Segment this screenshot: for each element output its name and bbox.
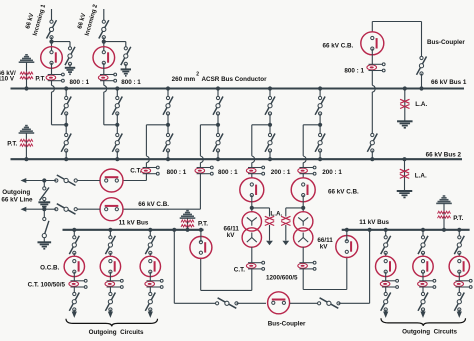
isolator 11 kV bus-coupler left xyxy=(216,298,239,309)
node incoming 1 on bus 2 xyxy=(64,157,68,161)
current transformer outgoing line 1 xyxy=(141,166,159,175)
svg-text:66 kV C.B.: 66 kV C.B. xyxy=(138,201,169,208)
svg-text:1200/600/5: 1200/600/5 xyxy=(266,274,298,281)
ground L.A. bus 1 xyxy=(397,121,413,127)
crossover incoming 1 over Bus 1 xyxy=(52,85,55,92)
ground L.A. transformer 1 xyxy=(266,241,273,246)
label Bus-Coupler xyxy=(268,321,306,328)
current transformer outgoing circuit R1 xyxy=(380,279,398,288)
svg-text:L.A.: L.A. xyxy=(270,210,282,217)
potential transformer P.T. 66kV/110V xyxy=(19,55,35,89)
ground outgoing line 1 xyxy=(38,200,50,208)
wire xyxy=(104,92,118,125)
bus 1 isolator transformer 1 xyxy=(265,89,275,125)
wire xyxy=(109,272,111,281)
label Outgoing Circuits xyxy=(402,328,457,335)
label Outgoing Circuits xyxy=(89,329,144,336)
wire to earth switch 1 xyxy=(52,42,71,49)
label C.T. 100/50/5 xyxy=(28,281,66,288)
node outgoing line 1 on bus 1 xyxy=(166,86,170,90)
isolator incoming 2 xyxy=(99,20,109,39)
node L.A. tap transformer 2 xyxy=(301,206,305,210)
svg-text:2: 2 xyxy=(196,72,199,78)
11 kV Bus left xyxy=(63,229,204,231)
node P.T. on bus 2 xyxy=(24,157,28,161)
wire xyxy=(422,287,424,295)
wire xyxy=(103,63,105,75)
arrow outgoing circuit R1 xyxy=(383,312,388,318)
wire xyxy=(458,287,460,295)
node outgoing line 1 transfer xyxy=(166,123,170,127)
node transformer 2 on bus 2 xyxy=(318,157,322,161)
node outgoing line 1 on bus 2 xyxy=(166,157,170,161)
label L.A. xyxy=(270,210,282,217)
node earth switch outgoing 2 xyxy=(42,207,46,211)
current transformer outgoing circuit L3 xyxy=(145,279,163,288)
incoming 1 line drop xyxy=(51,9,53,22)
node P.T. on 11 kV bus right xyxy=(442,228,446,232)
current transformer T1 secondary xyxy=(246,261,264,270)
current transformer outgoing circuit L1 xyxy=(69,279,87,288)
arrow outgoing line 1 xyxy=(21,178,27,183)
bus 2 isolator incoming 1 xyxy=(61,125,71,159)
current transformer bus-coupler xyxy=(367,63,385,72)
oil circuit breaker outgoing circuit R2 O.C.B. xyxy=(413,256,433,276)
node transformer 2 on bus 1 xyxy=(318,86,322,90)
node bus-coupler on 11 kV bus left xyxy=(172,228,176,232)
wire outgoing line 2 from transfer node xyxy=(200,125,218,156)
svg-text:11 kV Bus: 11 kV Bus xyxy=(359,219,389,226)
wire xyxy=(371,70,373,85)
ground earth switch 2 xyxy=(121,64,131,76)
node transformer 1 on bus 1 xyxy=(268,86,272,90)
wire xyxy=(346,230,348,241)
circuit breaker 11 kV incomer right xyxy=(336,236,358,258)
bus 1 isolator outgoing line 1 xyxy=(163,89,173,125)
wire xyxy=(269,225,271,241)
crossover over Bus 2 xyxy=(252,156,255,163)
crossover bus-coupler over Bus 1 xyxy=(372,85,375,92)
svg-text:C.T.: C.T. xyxy=(234,266,245,273)
node incoming 1 xyxy=(49,40,53,44)
circuit breaker outgoing line 2 xyxy=(100,198,123,221)
svg-text:ACSR Bus Conductor: ACSR Bus Conductor xyxy=(202,76,268,83)
svg-text:260 mm: 260 mm xyxy=(172,76,196,83)
wire xyxy=(109,287,111,295)
brace outgoing circuits left xyxy=(66,319,158,327)
svg-text:P.T.: P.T. xyxy=(35,76,45,83)
svg-text:P.T.: P.T. xyxy=(198,221,208,228)
wire xyxy=(73,272,75,281)
svg-text:L.A.: L.A. xyxy=(415,101,427,108)
arrow outgoing circuit R3 xyxy=(457,312,462,318)
potential transformer P.T. 11 kV left xyxy=(180,211,196,230)
label 800 : 1 xyxy=(167,169,187,176)
label C.T. xyxy=(234,266,245,273)
bus 2 isolator transformer 2 xyxy=(315,125,325,159)
wire xyxy=(422,272,424,281)
wire xyxy=(200,230,202,242)
node outgoing circuit R3 on 11 kV bus xyxy=(457,228,461,232)
svg-text:Bus-Coupler: Bus-Coupler xyxy=(427,39,465,46)
node outgoing line 2 on bus 2 xyxy=(216,157,220,161)
svg-text:kV: kV xyxy=(227,232,236,239)
isolator 11 kV bus-coupler right xyxy=(318,298,341,309)
wire xyxy=(385,287,387,295)
label P.T. xyxy=(198,221,208,228)
wire xyxy=(339,230,370,303)
isolator outgoing circuit L2 lower xyxy=(105,292,115,312)
label Bus-Coupler xyxy=(427,39,465,46)
wire transformer 1 from transfer node xyxy=(252,125,270,156)
svg-text:Outgoing Circuits: Outgoing Circuits xyxy=(89,329,144,336)
arrow outgoing line 2 xyxy=(21,207,27,212)
wire xyxy=(149,287,151,295)
potential transformer P.T. 11 kV right xyxy=(436,196,452,230)
bus 1 isolator transformer 2 xyxy=(315,89,325,125)
wire xyxy=(251,195,253,212)
svg-text:11 kV Bus: 11 kV Bus xyxy=(119,219,149,226)
current transformer transformer-1 feeder xyxy=(246,166,264,175)
node P.T. on 11 kV bus left xyxy=(185,228,189,232)
wire xyxy=(26,180,57,182)
svg-text:66 kV C.B.: 66 kV C.B. xyxy=(328,188,359,195)
label 66/11 kV xyxy=(317,237,333,251)
current transformer outgoing line 2 xyxy=(195,166,213,175)
node incoming 2 transfer xyxy=(115,123,119,127)
wire outgoing line 1 from transfer node xyxy=(146,125,168,156)
wire xyxy=(103,80,105,85)
wire xyxy=(51,80,53,85)
wire to earth switch 2 xyxy=(104,42,126,49)
node bus-coupler on bus 1 xyxy=(419,86,423,90)
isolator outgoing circuit R3 upper xyxy=(454,230,464,256)
oil circuit breaker outgoing circuit L3 O.C.B. xyxy=(140,256,160,276)
label 11 kV Bus xyxy=(119,219,149,226)
current transformer outgoing circuit L2 xyxy=(105,279,123,288)
bus-coupler isolator to bus 1 xyxy=(417,56,427,88)
arrow outgoing circuit R2 xyxy=(420,312,425,318)
wire xyxy=(73,287,75,295)
isolator outgoing circuit L2 upper xyxy=(105,230,115,256)
bus 2 isolator outgoing line 1 xyxy=(163,125,173,159)
circuit breaker 11 kV incomer left xyxy=(190,236,212,258)
node transformer 2 transfer xyxy=(318,123,322,127)
wire xyxy=(51,63,53,75)
ground outgoing line 2 xyxy=(37,238,51,249)
svg-text:Outgoing: Outgoing xyxy=(2,189,30,196)
wire xyxy=(302,163,304,168)
label 800 : 1 xyxy=(121,79,141,86)
node outgoing circuit R2 on 11 kV bus xyxy=(421,228,425,232)
wire xyxy=(290,302,319,304)
wire xyxy=(52,92,67,125)
wire xyxy=(458,272,460,281)
svg-text:C.T.: C.T. xyxy=(130,168,141,175)
oil circuit breaker outgoing circuit R3 O.C.B. xyxy=(449,256,469,276)
isolator outgoing circuit R3 lower xyxy=(454,292,464,312)
current transformer incoming 1 xyxy=(46,73,64,82)
svg-text:O.C.B.: O.C.B. xyxy=(40,265,59,272)
node incomer on 11 kV bus right xyxy=(345,228,349,232)
incoming 2 line drop xyxy=(103,9,105,22)
node outgoing circuit L2 on 11 kV bus xyxy=(108,228,112,232)
wire xyxy=(123,173,146,180)
wire xyxy=(251,163,253,168)
node L.A. on bus 2 xyxy=(402,157,406,161)
label 66 kV Bus 1 xyxy=(431,79,467,86)
isolator outgoing line 2 xyxy=(55,204,78,215)
svg-text:800 : 1: 800 : 1 xyxy=(344,67,364,74)
svg-text:200 : 1: 200 : 1 xyxy=(322,169,342,176)
bus 1 isolator incoming 2 xyxy=(112,89,122,125)
node P.T. on bus 1 xyxy=(24,86,28,90)
brace outgoing circuits right xyxy=(381,318,466,326)
node bus-coupler on bus 2 xyxy=(370,157,374,161)
label 66 kV Incoming 2 xyxy=(76,3,99,36)
node outgoing line 2 on bus 1 xyxy=(216,86,220,90)
svg-text:200 : 1: 200 : 1 xyxy=(271,169,291,176)
earth switch outgoing line 2 xyxy=(42,209,49,238)
node incoming 2 on bus 2 xyxy=(115,157,119,161)
arrow outgoing circuit L3 xyxy=(148,312,153,318)
current transformer outgoing circuit R2 xyxy=(418,279,436,288)
label 66 kV/ 110 V xyxy=(0,70,16,83)
node outgoing line 2 transfer xyxy=(216,123,220,127)
bus-coupler circuit breaker 66 kV C.B. xyxy=(361,32,384,55)
wire L.A. tap xyxy=(286,208,303,217)
label 200 : 1 xyxy=(322,169,342,176)
lightning arrester transformer 2 xyxy=(281,216,290,225)
label Outgoing 66 kV Line xyxy=(1,189,33,203)
isolator outgoing circuit R1 upper xyxy=(381,230,391,256)
isolator outgoing circuit L3 lower xyxy=(145,292,155,312)
node outgoing circuit L3 on 11 kV bus xyxy=(148,228,152,232)
bus 2 isolator outgoing line 2 xyxy=(213,125,223,159)
earth switch incoming 2 xyxy=(121,47,131,66)
bus 1 isolator outgoing line 2 xyxy=(213,89,223,125)
svg-text:66 kV Bus 1: 66 kV Bus 1 xyxy=(431,79,467,86)
circuit breaker transformer 1 66 kV C.B. xyxy=(240,178,264,202)
node outgoing circuit R1 on 11 kV bus xyxy=(384,228,388,232)
svg-text:66 kV Bus 2: 66 kV Bus 2 xyxy=(426,152,462,159)
label 66 kV C.B. xyxy=(138,201,169,208)
wire xyxy=(302,247,304,263)
arrow outgoing circuit L1 xyxy=(72,312,77,318)
wire xyxy=(76,180,101,182)
bus-coupler top tie xyxy=(372,22,421,59)
crossover over Bus 2 xyxy=(200,156,203,163)
wire xyxy=(302,195,304,212)
node incoming 1 on bus 1 xyxy=(64,86,68,90)
label 200 : 1 xyxy=(271,169,291,176)
svg-text:800 : 1: 800 : 1 xyxy=(218,169,238,176)
svg-text:kV: kV xyxy=(320,244,329,251)
wire xyxy=(123,173,200,209)
svg-text:66 kV Line: 66 kV Line xyxy=(1,196,33,203)
wire xyxy=(251,247,253,263)
node outgoing circuit L1 on 11 kV bus xyxy=(72,228,76,232)
svg-text:Bus-Coupler: Bus-Coupler xyxy=(268,321,306,328)
label P.T. xyxy=(453,215,463,222)
crossover over Bus 2 xyxy=(146,156,149,163)
lightning arrester L.A. bus 1 xyxy=(400,89,409,122)
wire xyxy=(26,208,57,210)
wire xyxy=(149,272,151,281)
label 66 kV Incoming 1 xyxy=(24,3,47,36)
svg-text:P.T.: P.T. xyxy=(7,141,17,148)
label L.A. xyxy=(415,101,427,108)
11 kV Bus right xyxy=(342,229,470,231)
label 1200/600/5 xyxy=(266,274,298,281)
bus 1 isolator incoming 1 xyxy=(61,89,71,125)
circuit breaker incoming 2 (66 kV C.B.) xyxy=(93,47,115,69)
wire xyxy=(51,37,53,52)
label P.T. xyxy=(7,141,17,148)
potential transformer P.T. bus 2 xyxy=(19,126,35,160)
oil circuit breaker outgoing circuit R1 O.C.B. xyxy=(376,256,396,276)
isolator outgoing line 1 xyxy=(55,175,78,186)
svg-text:C.T. 100/50/5: C.T. 100/50/5 xyxy=(28,281,66,288)
ground L.A. bus 2 xyxy=(397,191,413,197)
label 66/11 kV xyxy=(224,226,240,240)
wire L.A. tap xyxy=(252,208,270,217)
label 66 kV Bus 2 xyxy=(426,152,462,159)
isolator outgoing circuit R1 lower xyxy=(381,292,391,312)
crossover over Bus 2 xyxy=(303,156,306,163)
transformer T2 66/11 kV xyxy=(294,212,313,248)
label P.T. xyxy=(35,76,45,83)
isolator outgoing circuit L3 upper xyxy=(145,230,155,256)
node earth switch outgoing 1 xyxy=(42,178,46,182)
isolator incoming 1 xyxy=(47,20,57,39)
node transformer 1 transfer xyxy=(268,123,272,127)
node incomer on 11 kV bus left xyxy=(199,228,203,232)
label 66 kV C.B. xyxy=(323,42,354,49)
crossover incoming 2 over Bus 1 xyxy=(104,85,107,92)
wire xyxy=(303,257,347,290)
svg-text:800 : 1: 800 : 1 xyxy=(167,169,187,176)
lightning arrester transformer 1 xyxy=(265,216,274,225)
svg-text:66 kV C.B.: 66 kV C.B. xyxy=(323,42,354,49)
wire xyxy=(237,302,267,304)
wire xyxy=(285,225,287,241)
isolator outgoing circuit L1 upper xyxy=(69,230,79,256)
66 kV Bus 2 xyxy=(11,158,463,160)
wire xyxy=(199,163,201,168)
isolator outgoing circuit R2 upper xyxy=(418,230,428,256)
label 800 : 1 xyxy=(344,67,364,74)
label L.A. xyxy=(415,172,427,179)
wire xyxy=(371,49,373,65)
circuit breaker outgoing line 1 xyxy=(100,169,123,192)
wire xyxy=(251,173,253,178)
label 800 : 1 xyxy=(218,169,238,176)
oil circuit breaker outgoing circuit L1 O.C.B. xyxy=(64,256,84,276)
earth switch outgoing line 1 xyxy=(40,181,50,201)
bus 2 isolator transformer 1 xyxy=(265,125,275,159)
bus-coupler isolator to bus 2 xyxy=(367,133,377,159)
label 66 kV C.B. xyxy=(328,188,359,195)
label O.C.B. xyxy=(40,265,59,272)
oil circuit breaker outgoing circuit L2 O.C.B. xyxy=(100,256,120,276)
label 260 mm2 ACSR Bus Conductor xyxy=(172,72,268,84)
wire transformer 2 from transfer node xyxy=(303,125,320,156)
svg-text:L.A.: L.A. xyxy=(415,172,427,179)
circuit breaker incoming 1 (66 kV C.B.) xyxy=(41,47,63,69)
isolator outgoing circuit R2 lower xyxy=(418,292,428,312)
isolator outgoing circuit L1 lower xyxy=(69,292,79,312)
wire xyxy=(103,37,105,52)
node bus-coupler on 11 kV bus right xyxy=(368,228,372,232)
transformer T1 66/11 kV xyxy=(242,212,261,248)
ground earth switch 1 xyxy=(65,64,75,74)
circuit breaker transformer 2 66 kV C.B. xyxy=(291,178,315,202)
wire xyxy=(76,208,101,210)
svg-text:P.T.: P.T. xyxy=(453,215,463,222)
wire xyxy=(371,92,373,135)
svg-text:Outgoing Circuits: Outgoing Circuits xyxy=(402,328,457,335)
node L.A. tap transformer 1 xyxy=(250,206,254,210)
current transformer T2 secondary xyxy=(298,261,316,270)
ground L.A. transformer 2 xyxy=(282,241,289,246)
circuit breaker 11 kV Bus-Coupler xyxy=(268,292,290,314)
label C.T. xyxy=(130,168,141,175)
current transformer transformer-2 feeder xyxy=(298,166,316,175)
node incoming 1 transfer xyxy=(64,123,68,127)
wire xyxy=(201,258,252,291)
wire xyxy=(302,173,304,178)
current transformer incoming 2 xyxy=(98,73,116,82)
node incoming 2 xyxy=(102,40,106,44)
node incoming 2 on bus 1 xyxy=(115,86,119,90)
bus 2 isolator incoming 2 xyxy=(112,125,122,159)
lightning arrester L.A. bus 2 xyxy=(400,159,409,191)
node L.A. on bus 1 xyxy=(403,86,407,90)
svg-text:800 : 1: 800 : 1 xyxy=(121,79,141,86)
label 11 kV Bus xyxy=(359,219,389,226)
wire xyxy=(145,163,147,168)
earth switch incoming 1 xyxy=(65,47,75,66)
66 kV Bus 1 xyxy=(11,87,465,89)
svg-text:110 V: 110 V xyxy=(0,76,15,83)
current transformer outgoing circuit R3 xyxy=(454,279,472,288)
wire xyxy=(174,230,217,303)
label 800 : 1 xyxy=(70,79,90,86)
svg-text:800 : 1: 800 : 1 xyxy=(70,79,90,86)
arrow outgoing circuit L2 xyxy=(108,312,113,318)
wire xyxy=(385,272,387,281)
node transformer 1 on bus 2 xyxy=(268,157,272,161)
